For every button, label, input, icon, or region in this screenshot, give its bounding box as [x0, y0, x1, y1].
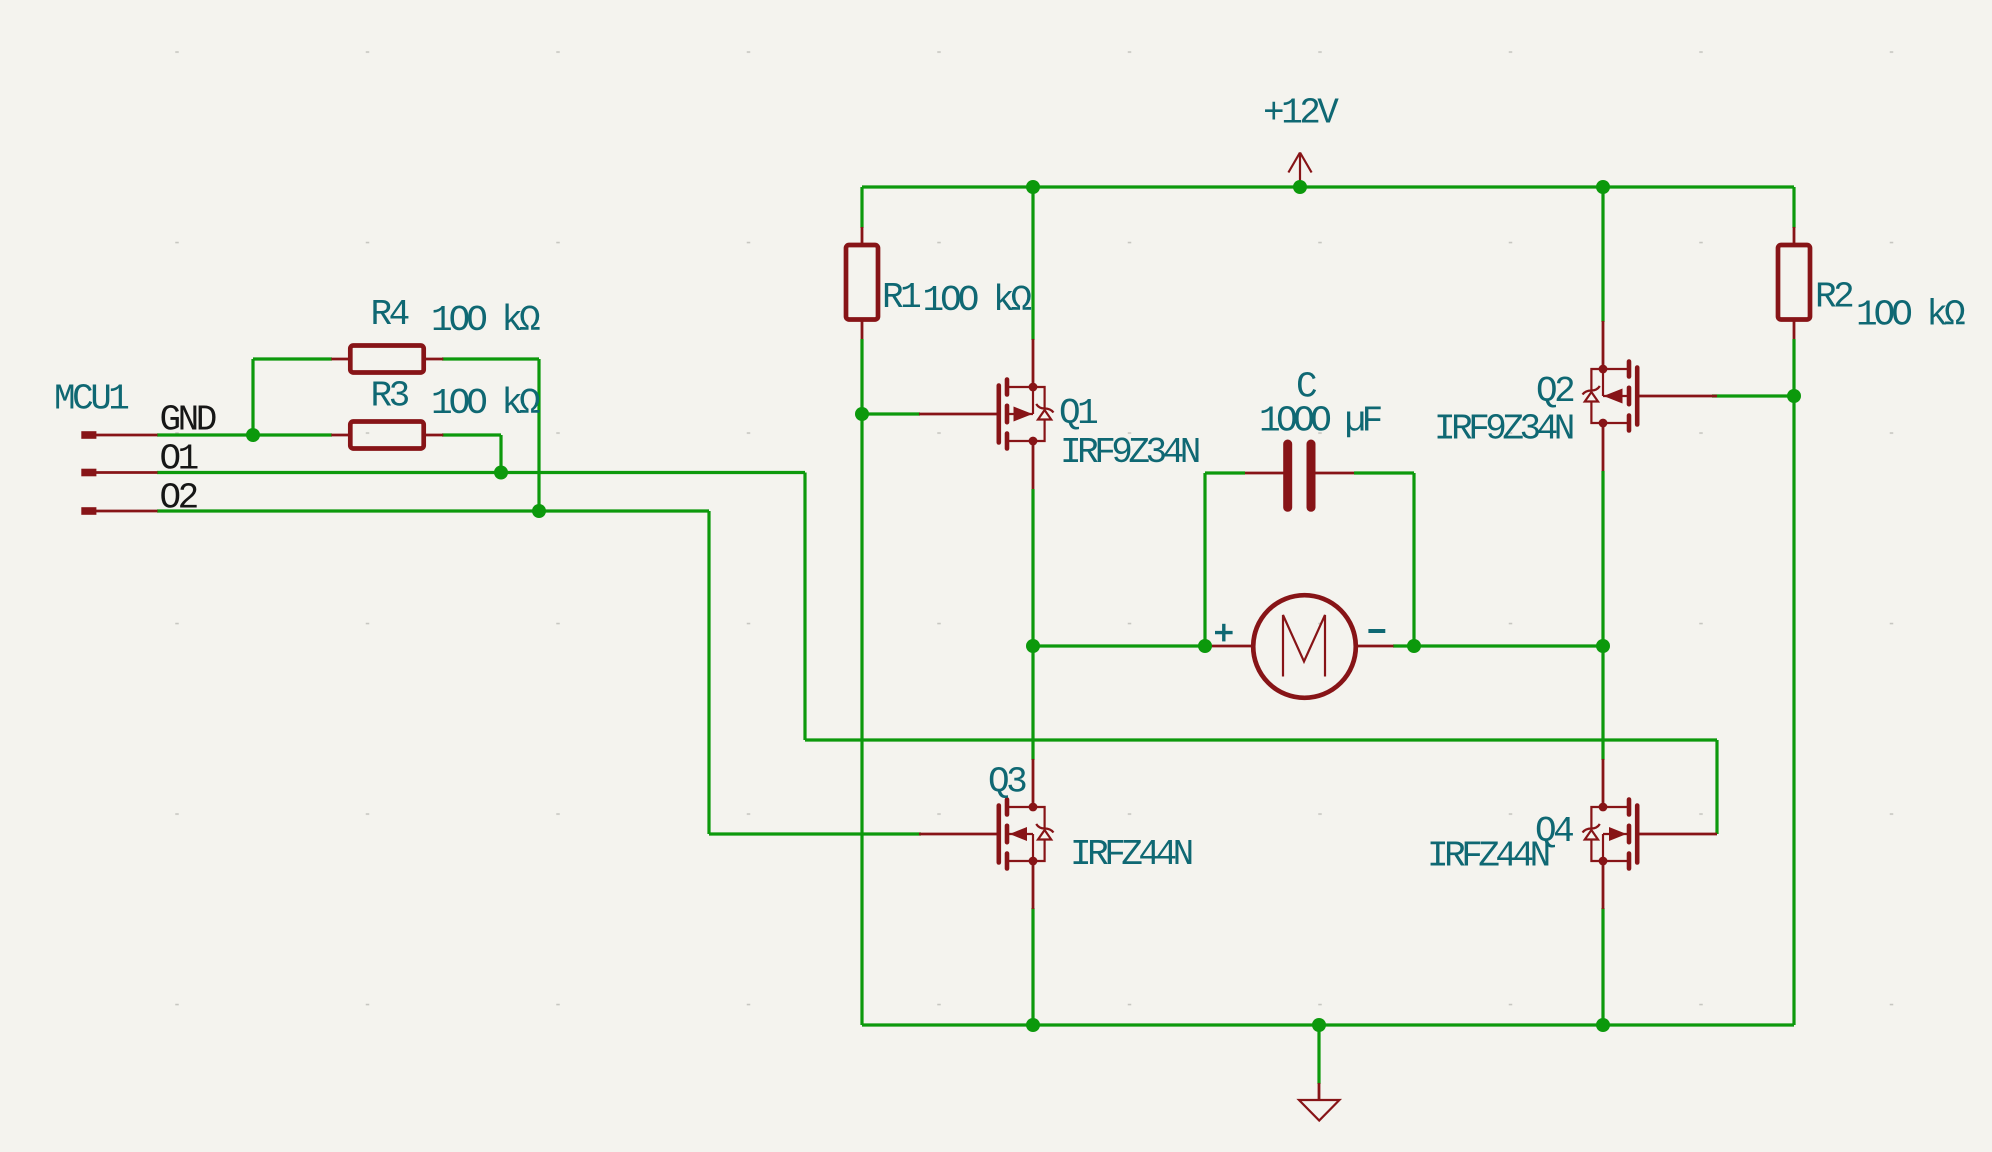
junction GND / R4 branch	[246, 428, 260, 442]
wire R4 right vertical to O2	[537, 359, 540, 511]
wire R4 left vertical branch	[251, 359, 254, 435]
svg-text:1OO kΩ: 1OO kΩ	[431, 383, 540, 424]
motor M	[1206, 595, 1394, 698]
junction motor right node	[1407, 639, 1421, 653]
MCU1 pin O2	[81, 507, 157, 515]
svg-text:Q3: Q3	[988, 762, 1026, 803]
transistor Q4 IRFZ44N N-channel mirrored	[1583, 759, 1718, 909]
wire capacitor right lead	[1354, 471, 1414, 474]
junction R1 / Q1 gate node	[855, 407, 869, 421]
capacitor C	[1245, 444, 1354, 507]
svg-text:Q2: Q2	[1536, 371, 1574, 412]
motor plus terminal label	[1215, 624, 1233, 642]
svg-text:R2: R2	[1815, 277, 1853, 318]
wire O2 to Q3 gate	[709, 832, 921, 835]
junction R2 / Q2 gate node	[1787, 389, 1801, 403]
svg-text:1OO kΩ: 1OO kΩ	[1856, 295, 1965, 336]
transistor Q2 IRF9Z34N P-channel mirrored	[1583, 321, 1718, 471]
wire capacitor right vertical	[1412, 473, 1415, 646]
wire R2 bottom / right column down to bottom rail	[1792, 339, 1795, 1025]
resistor R2	[1778, 227, 1810, 339]
svg-text:1OO kΩ: 1OO kΩ	[923, 280, 1032, 321]
svg-text:1OOO µF: 1OOO µF	[1259, 401, 1382, 442]
svg-text:IRFZ44N: IRFZ44N	[1070, 834, 1192, 875]
transistor Q1 IRF9Z34N P-channel	[919, 339, 1054, 489]
svg-text:GND: GND	[160, 400, 216, 441]
wire motor right branch to Q2 column	[1414, 644, 1603, 647]
wire O1 vertical	[803, 473, 806, 741]
junction O1 / R3	[494, 466, 508, 480]
svg-text:O1: O1	[160, 439, 198, 480]
wire +12V top rail	[862, 185, 1794, 188]
svg-text:R1: R1	[882, 277, 920, 318]
junction top rail / Q2 drain	[1596, 180, 1610, 194]
wire GND net from MCU1	[157, 433, 332, 436]
wire R2 top stub	[1792, 187, 1795, 228]
wire Q1 source to Q3 drain	[1031, 489, 1034, 760]
resistor R4	[331, 346, 443, 373]
motor minus terminal label	[1368, 629, 1385, 633]
svg-text:Q1: Q1	[1059, 393, 1097, 434]
junction bottom rail / Q4 source	[1596, 1018, 1610, 1032]
wire motor right stub	[1393, 644, 1414, 647]
wire O2 vertical	[707, 511, 710, 834]
wire R1 bottom / left gate column down to bottom rail	[860, 339, 863, 1025]
svg-text:O2: O2	[160, 478, 198, 519]
wire R1 top stub	[860, 187, 863, 228]
wire Q1 drain column	[1031, 187, 1034, 340]
resistor R1	[846, 227, 878, 339]
wire Q2 drain column	[1601, 187, 1604, 322]
wire crossover down to Q4 gate	[1715, 740, 1718, 834]
junction motor left / Q1-Q3 column	[1026, 639, 1040, 653]
svg-text:R4: R4	[371, 294, 409, 335]
wire GND symbol stub	[1317, 1025, 1320, 1084]
MCU1 pin GND	[81, 431, 157, 439]
svg-text:1OO kΩ: 1OO kΩ	[431, 300, 540, 341]
wire O1 crossover horizontal	[805, 738, 1717, 741]
junction motor right / Q2-Q4 column	[1596, 639, 1610, 653]
svg-text:+12V: +12V	[1263, 93, 1339, 134]
wire O1 net	[157, 471, 805, 474]
wire R4 left lead	[253, 357, 332, 360]
svg-text:IRFZ44N: IRFZ44N	[1427, 836, 1549, 877]
ground symbol	[1299, 1083, 1339, 1121]
wire Q4 source to bottom rail	[1601, 908, 1604, 1025]
svg-text:R3: R3	[371, 376, 409, 417]
wire O2 net	[157, 509, 709, 512]
wire Q3 source to bottom rail	[1031, 908, 1034, 1025]
junction bottom rail / ground	[1312, 1018, 1326, 1032]
svg-text:IRF9Z34N: IRF9Z34N	[1060, 432, 1199, 473]
transistor Q3 IRFZ44N N-channel	[919, 759, 1054, 909]
wire capacitor left vertical	[1203, 473, 1206, 646]
power symbol +12V arrow	[1288, 153, 1311, 188]
svg-text:MCU1: MCU1	[54, 379, 128, 420]
wire Q2 source to Q4 drain	[1601, 471, 1604, 760]
wire R3 right lead	[442, 433, 501, 436]
wire capacitor left lead	[1205, 471, 1245, 474]
resistor R3	[331, 422, 443, 449]
junction top rail / +12V power	[1293, 180, 1307, 194]
wire Q1 gate	[862, 412, 920, 415]
junction O2 / R4	[532, 504, 546, 518]
wire R3 right vertical to O1	[499, 435, 502, 473]
junction top rail / Q1 drain	[1026, 180, 1040, 194]
wire motor left branch	[1033, 644, 1205, 647]
svg-text:IRF9Z34N: IRF9Z34N	[1434, 409, 1573, 450]
junction bottom rail / Q3 source	[1026, 1018, 1040, 1032]
wire bottom GND rail	[862, 1023, 1794, 1026]
wire R4 right lead	[442, 357, 539, 360]
wire Q2 gate	[1712, 394, 1794, 397]
junction motor left node	[1198, 639, 1212, 653]
MCU1 pin O1	[81, 469, 157, 477]
